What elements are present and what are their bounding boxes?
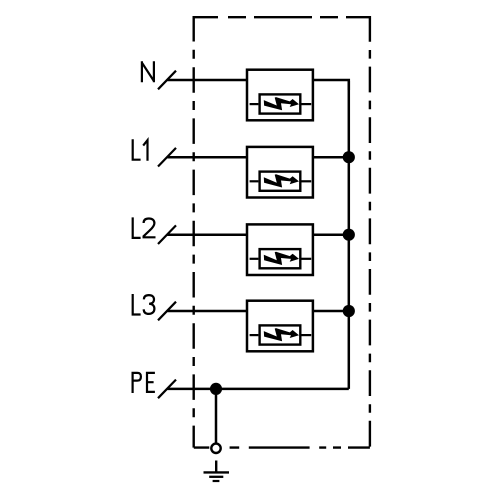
node L2 label bbox=[133, 217, 156, 238]
ground symbol bar 2 bbox=[209, 476, 223, 478]
ground symbol bar 1 bbox=[204, 471, 230, 473]
ground symbol bar 3 bbox=[213, 480, 220, 482]
surge arrester F4 (L3) bbox=[247, 301, 313, 352]
terminal slash L2 bbox=[158, 225, 176, 244]
wire L3 left bbox=[168, 310, 249, 313]
wire L1 left bbox=[168, 156, 249, 159]
ground symbol stem bbox=[215, 461, 217, 473]
surge arrester F3 (L2) bbox=[247, 224, 313, 275]
wire L2 left bbox=[168, 233, 249, 236]
wire L1 right to bus bbox=[313, 156, 348, 159]
enclosure dashed border: left edge bbox=[192, 16, 194, 448]
wire N left bbox=[168, 79, 249, 82]
junction dot L3/bus bbox=[343, 305, 355, 317]
surge arrester F1 (N) bbox=[247, 70, 313, 121]
junction dot L2/bus bbox=[343, 229, 355, 241]
terminal slash PE bbox=[158, 380, 176, 399]
enclosure dashed border: top edge bbox=[194, 16, 370, 18]
wire PE horizontal bbox=[168, 388, 349, 391]
bus vertical wire bbox=[348, 81, 351, 389]
terminal slash L3 bbox=[158, 302, 176, 321]
node PE label bbox=[133, 373, 155, 393]
earth terminal circle bbox=[211, 444, 220, 453]
node L3 label bbox=[133, 294, 155, 315]
surge arrester F2 (L1) bbox=[247, 147, 313, 198]
junction dot PE bbox=[210, 383, 222, 395]
wire L2 right to bus bbox=[313, 233, 348, 236]
junction dot L1/bus bbox=[343, 151, 355, 163]
wire L3 right to bus bbox=[313, 310, 348, 313]
node N label bbox=[142, 61, 155, 82]
enclosure dashed border: bottom edge bbox=[194, 446, 370, 448]
terminal slash L1 bbox=[158, 148, 176, 167]
wire PE drop to earth terminal bbox=[215, 389, 218, 443]
node L1 label bbox=[133, 139, 148, 161]
enclosure dashed border: right edge bbox=[369, 16, 371, 448]
terminal slash N bbox=[158, 71, 176, 90]
wire N right to bus (top corner) bbox=[313, 80, 348, 90]
